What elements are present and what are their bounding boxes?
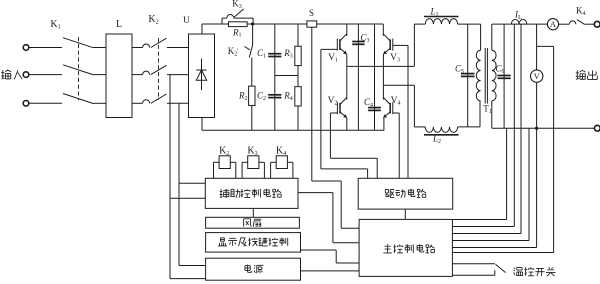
- svg-text:S: S: [309, 8, 314, 18]
- svg-text:U: U: [183, 16, 190, 26]
- svg-text:K2': K2': [228, 46, 239, 57]
- svg-text:A: A: [550, 19, 557, 29]
- svg-text:L: L: [116, 19, 122, 30]
- svg-text:V: V: [534, 71, 541, 81]
